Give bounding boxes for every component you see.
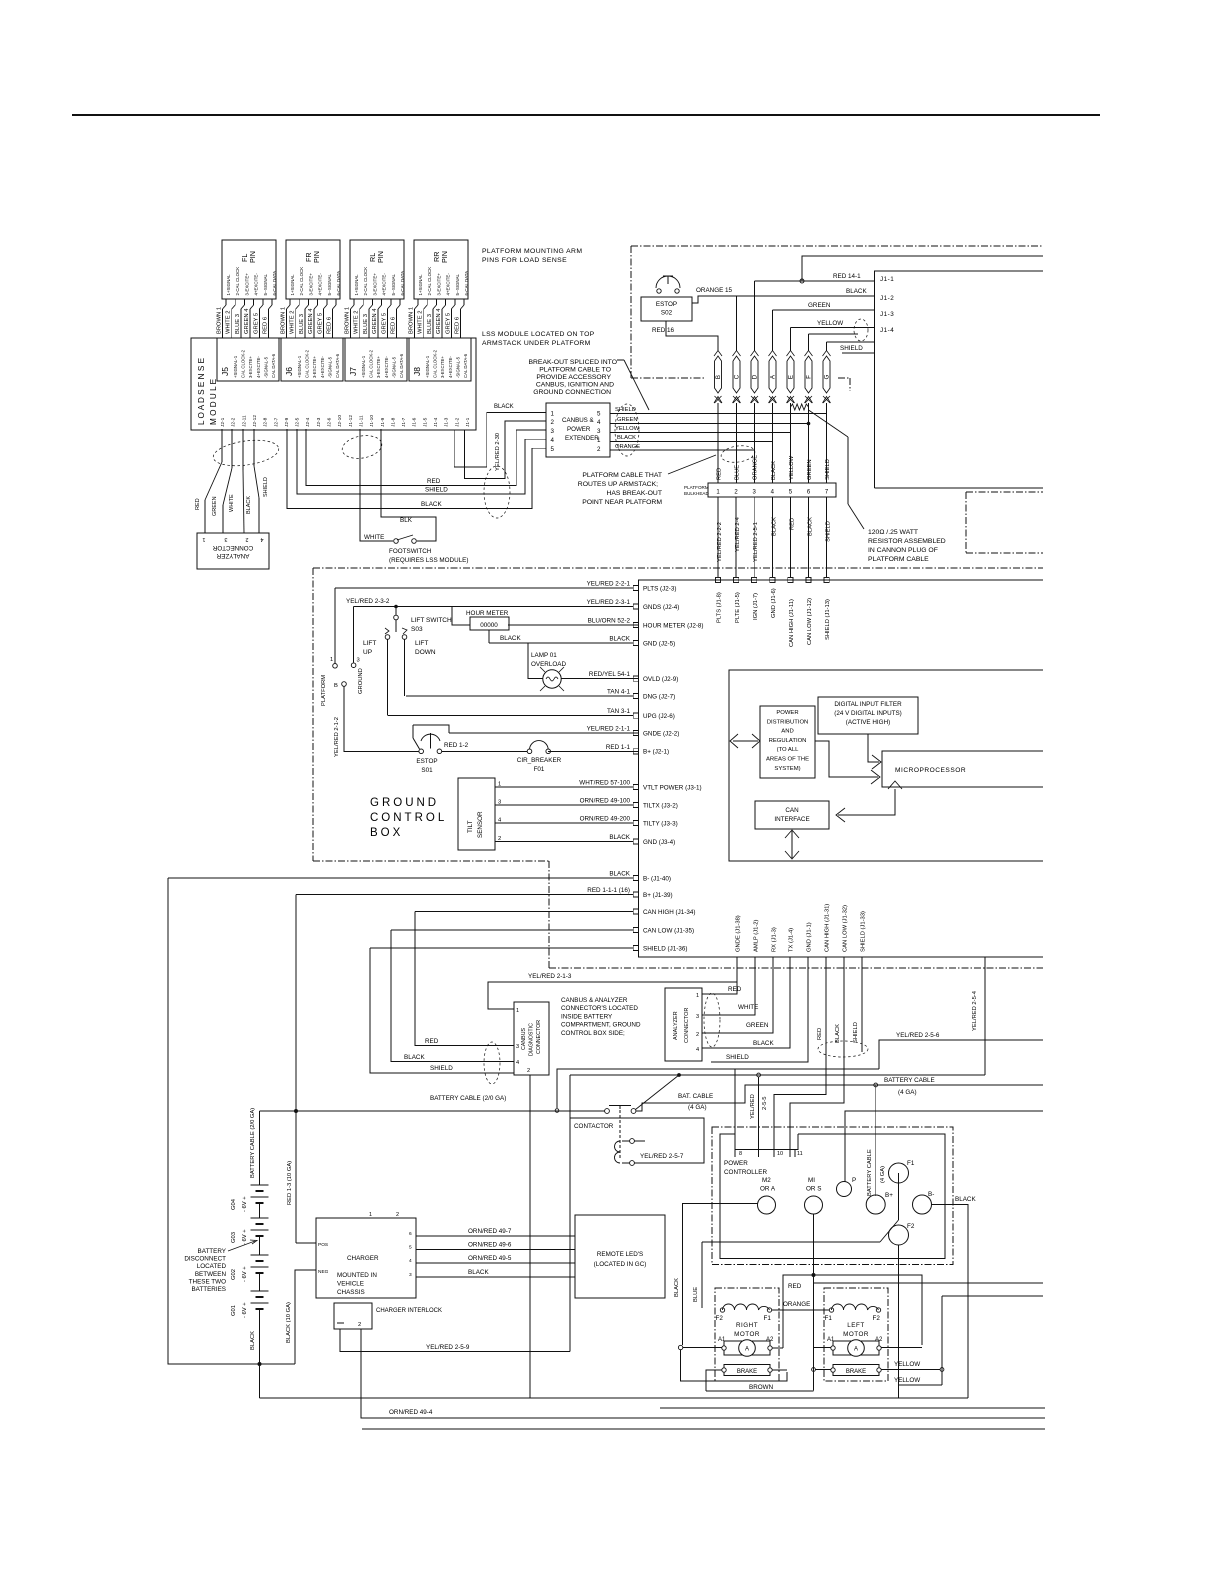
svg-text:6-CAL DATA: 6-CAL DATA (336, 271, 341, 296)
svg-text:GREEN 4: GREEN 4 (244, 308, 250, 334)
extender dashed ellipse (615, 404, 639, 456)
svg-text:SHIELD: SHIELD (263, 477, 269, 497)
svg-text:CANBUS &: CANBUS & (562, 417, 595, 424)
circuit breaker F01 (527, 749, 532, 754)
svg-text:INSIDE BATTERY: INSIDE BATTERY (561, 1013, 613, 1020)
svg-text:RED: RED (788, 1283, 802, 1290)
svg-text:WHITE 2: WHITE 2 (418, 310, 424, 334)
svg-text:ORN/RED 49-7: ORN/RED 49-7 (468, 1228, 512, 1235)
svg-text:CAL DATA-6: CAL DATA-6 (399, 353, 404, 378)
svg-text:POWER: POWER (776, 710, 798, 716)
svg-text:PLATFORM MOUNTING ARM: PLATFORM MOUNTING ARM (482, 248, 582, 255)
svg-text:3: 3 (696, 1014, 699, 1020)
svg-text:YELLOW: YELLOW (894, 1361, 920, 1368)
svg-text:SHIELD: SHIELD (853, 1022, 859, 1043)
svg-text:POWER: POWER (724, 1160, 748, 1167)
wire SHIELD riser (370, 948, 514, 1073)
svg-text:2-CAL CLOCK: 2-CAL CLOCK (427, 267, 432, 296)
svg-text:YEL/RED 2-30: YEL/RED 2-30 (495, 433, 501, 471)
Right motor field coil (723, 1304, 770, 1310)
svg-text:(TO ALL: (TO ALL (777, 747, 800, 753)
wire (371, 299, 373, 305)
wire M1 down (813, 1214, 815, 1273)
svg-text:REMOTE LED'S: REMOTE LED'S (597, 1251, 643, 1258)
svg-text:- 6V +: - 6V + (242, 1302, 248, 1318)
svg-text:J2-1: J2-1 (220, 417, 226, 427)
svg-text:BLACK: BLACK (955, 1196, 976, 1203)
noise shield ellipse (854, 319, 868, 341)
wire RED 1-1 to B+ (J2-1) (548, 750, 639, 752)
svg-text:CAL DATA-6: CAL DATA-6 (335, 353, 340, 378)
wire A2 left to red (881, 1347, 922, 1349)
svg-text:- 6V +: - 6V + (242, 1266, 248, 1282)
svg-text:J1-2: J1-2 (454, 417, 460, 427)
breakout bullet B (715, 356, 722, 393)
wire (362, 299, 364, 305)
svg-text:B: B (334, 683, 338, 689)
svg-text:4: 4 (696, 1047, 699, 1053)
wire BLK from footswitch (381, 429, 436, 541)
svg-text:RED 16: RED 16 (652, 327, 675, 334)
svg-text:GREY 5: GREY 5 (445, 313, 451, 334)
svg-text:SHIELD: SHIELD (825, 459, 831, 480)
svg-text:00000: 00000 (480, 622, 498, 629)
pin 8 (734, 1069, 736, 1157)
svg-text:3-EXCITE+: 3-EXCITE+ (312, 356, 317, 378)
svg-text:TILTX (J3-2): TILTX (J3-2) (643, 802, 678, 809)
svg-text:YEL/RED: YEL/RED (750, 1094, 756, 1119)
svg-text:3: 3 (409, 1272, 412, 1278)
resistor 120ohm (791, 404, 809, 410)
estop S01 (413, 725, 449, 733)
svg-text:-SIGNAL-5: -SIGNAL-5 (455, 356, 460, 378)
svg-text:F: F (806, 375, 813, 379)
svg-text:OVLD (J2-9): OVLD (J2-9) (643, 676, 678, 683)
svg-text:BROWN 1: BROWN 1 (217, 307, 223, 334)
svg-text:PLTS (J1-8): PLTS (J1-8) (717, 592, 723, 623)
wire to page edge (802, 256, 1043, 281)
svg-text:CHASSIS: CHASSIS (337, 1289, 365, 1296)
svg-text:ORN/RED 49-5: ORN/RED 49-5 (468, 1255, 512, 1262)
svg-text:BLACK: BLACK (609, 636, 630, 643)
svg-text:J1-4: J1-4 (433, 417, 439, 427)
svg-text:YEL/RED 2-1-1: YEL/RED 2-1-1 (587, 726, 631, 733)
platform bulkhead connector (708, 483, 836, 497)
svg-text:BREAK-OUT SPLICED INTO: BREAK-OUT SPLICED INTO (528, 359, 617, 366)
svg-text:BLUE 3: BLUE 3 (363, 314, 369, 334)
svg-text:CAL CLOCK-2: CAL CLOCK-2 (241, 349, 246, 378)
svg-text:CAN LOW (J1-12): CAN LOW (J1-12) (807, 598, 813, 645)
svg-text:AREAS OF THE: AREAS OF THE (766, 757, 809, 763)
wire (234, 299, 236, 305)
svg-text:+SIGNAL-1: +SIGNAL-1 (233, 355, 238, 378)
wire LSM to analyzer pin2 (242, 429, 244, 470)
wire (435, 299, 437, 305)
svg-text:AND: AND (781, 729, 793, 735)
wire bulkhead down (717, 497, 719, 580)
GCB J-connector bar (639, 580, 1044, 957)
svg-text:CAN HIGH (J1-31): CAN HIGH (J1-31) (825, 904, 831, 952)
svg-text:POWER: POWER (567, 426, 591, 433)
wire battery link (259, 1203, 261, 1218)
platform pin box RR PIN (414, 240, 468, 299)
svg-text:WHITE: WHITE (364, 534, 384, 541)
svg-text:+SIGNAL-1: +SIGNAL-1 (425, 355, 430, 378)
svg-text:J1-1: J1-1 (465, 417, 471, 427)
svg-text:5: 5 (409, 1245, 412, 1251)
analyzer connector box (665, 988, 702, 1061)
svg-text:BATTERY CABLE: BATTERY CABLE (884, 1077, 935, 1084)
Left motor dash-dot box (824, 1288, 888, 1381)
svg-text:- 6V +: - 6V + (242, 1196, 248, 1212)
svg-text:WHITE: WHITE (229, 494, 235, 512)
svg-text:4+EXCITE-: 4+EXCITE- (256, 356, 261, 378)
canbus cable ellipse (484, 1042, 500, 1084)
wire GND net A (557, 1069, 879, 1108)
svg-text:J1-8: J1-8 (390, 417, 396, 427)
svg-text:B+ (J1-39): B+ (J1-39) (643, 892, 673, 899)
svg-text:(4 GA): (4 GA) (898, 1089, 917, 1096)
svg-text:2: 2 (498, 836, 501, 842)
svg-text:YEL/RED 2-5-7: YEL/RED 2-5-7 (640, 1153, 684, 1160)
wire (463, 299, 465, 305)
svg-text:1: 1 (597, 437, 601, 444)
wire battery riser (259, 1111, 261, 1185)
svg-text:4+EXCITE-: 4+EXCITE- (320, 356, 325, 378)
svg-text:SHIELD: SHIELD (425, 487, 448, 494)
svg-text:J1-7: J1-7 (401, 417, 407, 427)
svg-text:BLACK: BLACK (674, 1278, 680, 1297)
svg-text:UP: UP (363, 649, 372, 656)
svg-text:BATTERIES: BATTERIES (191, 1286, 226, 1293)
svg-text:LSS MODULE LOCATED ON TOP: LSS MODULE LOCATED ON TOP (482, 331, 595, 338)
contactor blade (636, 1075, 680, 1110)
Right motor armature (724, 1341, 770, 1355)
platform cable callout (668, 455, 716, 474)
svg-text:ORANGE: ORANGE (753, 455, 759, 480)
svg-text:BLACK: BLACK (835, 1024, 841, 1043)
svg-text:CONNECTOR: CONNECTOR (212, 544, 253, 551)
svg-text:GNDS (J2-4): GNDS (J2-4) (643, 604, 679, 611)
resistor callout (809, 410, 849, 437)
breakout bullet E (787, 356, 794, 393)
wire (253, 299, 255, 305)
svg-text:BRAKE: BRAKE (846, 1369, 866, 1375)
wire A1 right black (678, 1345, 682, 1349)
svg-text:OR A: OR A (760, 1186, 776, 1193)
svg-text:F2: F2 (873, 1315, 881, 1322)
svg-text:SHIELD: SHIELD (430, 1065, 453, 1072)
svg-text:POS: POS (318, 1242, 328, 1248)
J1 connector box (874, 271, 1043, 488)
svg-text:YELLOW: YELLOW (615, 426, 640, 432)
svg-text:TAN 3-1: TAN 3-1 (607, 708, 630, 715)
wire bulkhead down (753, 497, 755, 580)
svg-text:MI: MI (808, 1177, 815, 1184)
wire PLTS stub to terminal 1 (334, 588, 336, 663)
svg-text:J1-4: J1-4 (880, 327, 894, 334)
wire CAN LOW to CAN LOW (J1-35) (391, 929, 639, 931)
connector J7 box (345, 338, 407, 381)
svg-text:WHT/RED 57-100: WHT/RED 57-100 (579, 780, 630, 787)
wire SHIELD J1-33 down (861, 957, 863, 1052)
svg-text:4: 4 (516, 1060, 519, 1066)
svg-text:6-CAL DATA: 6-CAL DATA (464, 271, 469, 296)
svg-text:S01: S01 (421, 767, 433, 774)
svg-text:(REQUIRES LSS MODULE): (REQUIRES LSS MODULE) (389, 557, 468, 564)
svg-text:F1: F1 (907, 1160, 915, 1167)
svg-text:BLACK: BLACK (617, 435, 636, 441)
svg-text:TAN 4-1: TAN 4-1 (607, 689, 630, 696)
svg-text:YEL/RED 2-2-1: YEL/RED 2-2-1 (587, 581, 631, 588)
svg-text:3-EXCITE+: 3-EXCITE+ (308, 273, 313, 296)
svg-text:CONTROL BOX SIDE;: CONTROL BOX SIDE; (561, 1030, 625, 1037)
svg-text:BOX: BOX (370, 827, 403, 839)
svg-text:J2-11: J2-11 (241, 415, 247, 427)
arrow micro to can interface (838, 789, 895, 815)
svg-text:3-EXCITE+: 3-EXCITE+ (440, 356, 445, 378)
arrow filter to micro (868, 734, 879, 762)
svg-text:G: G (824, 374, 831, 379)
svg-text:GND (J3-4): GND (J3-4) (643, 839, 675, 846)
svg-text:SHIELD: SHIELD (840, 345, 863, 352)
wire left edge B- black (168, 878, 295, 1364)
connector J6 box (281, 338, 343, 381)
contactor (605, 1109, 610, 1114)
wire (225, 299, 227, 305)
Left motor armature (833, 1341, 879, 1355)
can wires ellipse (818, 1041, 868, 1057)
wire lamp leads (528, 643, 543, 679)
canbus & power extender box (546, 403, 610, 457)
svg-text:RED 1-2: RED 1-2 (444, 742, 469, 749)
svg-text:BAT. CABLE: BAT. CABLE (678, 1093, 713, 1100)
battery disconnect arrow (228, 1241, 255, 1251)
svg-text:RX (J1-3): RX (J1-3) (772, 927, 778, 952)
wire C riser (736, 296, 738, 351)
wire analyzer pin2 GREEN (702, 957, 773, 1033)
Right motor brake (724, 1365, 770, 1376)
svg-text:MOTOR: MOTOR (734, 1331, 760, 1338)
wire bullet to bulkhead (754, 403, 756, 483)
wire YEL/RED 2-3-1 to GNDS (J2-4) (354, 606, 639, 608)
svg-text:PLATFORM: PLATFORM (684, 485, 709, 490)
svg-text:G02: G02 (231, 1269, 237, 1280)
svg-text:BLACK: BLACK (404, 1054, 425, 1061)
svg-text:DNG (J2-7): DNG (J2-7) (643, 693, 675, 700)
svg-text:BULKHEAD: BULKHEAD (684, 491, 709, 496)
svg-text:6: 6 (409, 1231, 412, 1237)
svg-text:(ACTIVE HIGH): (ACTIVE HIGH) (846, 719, 890, 726)
wire BLACK to GND (J3-4) (495, 841, 639, 843)
wire bullet to bulkhead (717, 403, 719, 483)
svg-text:4+EXCITE-: 4+EXCITE- (448, 356, 453, 378)
options boundary dash-dot right (966, 491, 1043, 493)
svg-text:FOOTSWITCH: FOOTSWITCH (389, 548, 432, 555)
svg-text:J2-9: J2-9 (284, 417, 290, 427)
svg-text:BLACK: BLACK (421, 501, 442, 508)
wire LSM to analyzer pin4 (253, 429, 255, 466)
svg-text:1+SIGNAL: 1+SIGNAL (290, 274, 295, 296)
svg-text:3-EXCITE+: 3-EXCITE+ (436, 273, 441, 296)
svg-text:ESTOP: ESTOP (416, 758, 437, 765)
svg-text:GREEN 4: GREEN 4 (308, 308, 314, 334)
svg-text:4: 4 (551, 437, 555, 444)
svg-text:(24 V DIGITAL INPUTS): (24 V DIGITAL INPUTS) (834, 710, 902, 717)
wire GNDE row from estop bracket (449, 732, 639, 734)
svg-text:CAL DATA-6: CAL DATA-6 (271, 353, 276, 378)
svg-text:RESISTOR ASSEMBLED: RESISTOR ASSEMBLED (868, 538, 946, 545)
svg-text:CANBUS: CANBUS (521, 1027, 527, 1050)
svg-text:PLTE (J1-5): PLTE (J1-5) (735, 592, 741, 623)
wire power dist to micro (815, 741, 878, 777)
svg-text:PIN: PIN (312, 251, 321, 263)
svg-text:SHIELD: SHIELD (615, 407, 636, 413)
wire BLACK to extender pin5 (287, 429, 546, 509)
svg-text:CHARGER: CHARGER (347, 1255, 379, 1262)
wire TAN 4-1 to DNG (J2-7) (406, 695, 639, 697)
svg-text:G04: G04 (231, 1198, 237, 1210)
svg-text:A1: A1 (827, 1337, 835, 1343)
wire breaker to B+ J2-1 (551, 750, 639, 752)
svg-text:E: E (788, 375, 795, 379)
svg-text:ORN/RED 49-6: ORN/RED 49-6 (468, 1242, 512, 1249)
platform boundary dash-dot (631, 245, 1042, 247)
wire CAN HIGH J1-31 down (774, 957, 826, 1157)
svg-text:WHITE 2: WHITE 2 (290, 310, 296, 334)
svg-text:2: 2 (396, 1212, 399, 1218)
svg-text:CONNECTOR'S LOCATED: CONNECTOR'S LOCATED (561, 1005, 638, 1012)
wire LSM to analyzer pin1 (221, 429, 223, 462)
svg-text:WHITE 2: WHITE 2 (226, 310, 232, 334)
svg-text:B: B (715, 375, 722, 379)
svg-text:CIR_BREAKER: CIR_BREAKER (517, 757, 562, 764)
svg-text:S03: S03 (411, 626, 423, 633)
svg-text:PIN: PIN (248, 251, 257, 263)
svg-text:WHITE: WHITE (738, 1004, 758, 1011)
svg-text:THESE TWO: THESE TWO (189, 1278, 226, 1285)
lift down contact (402, 628, 407, 634)
wire P net (845, 1111, 1043, 1182)
svg-text:SYSTEM): SYSTEM) (774, 766, 800, 772)
svg-text:PLATFORM CABLE TO: PLATFORM CABLE TO (539, 367, 611, 374)
svg-text:BLACK: BLACK (846, 288, 867, 295)
svg-text:YEL/RED 2-5-6: YEL/RED 2-5-6 (896, 1032, 940, 1039)
wire M2 BLACK (683, 1204, 758, 1346)
svg-text:A: A (745, 1347, 749, 1353)
wire WHITE to footswitch (360, 429, 393, 541)
svg-text:CANBUS, IGNITION AND: CANBUS, IGNITION AND (536, 382, 614, 389)
svg-text:ROUTES UP ARMSTACK;: ROUTES UP ARMSTACK; (578, 481, 658, 488)
svg-text:VTLT POWER (J3-1): VTLT POWER (J3-1) (643, 784, 702, 791)
svg-text:1: 1 (516, 1008, 519, 1014)
wire GREEN J1-3 (772, 310, 774, 351)
wire CAN LOW J1-32 down (790, 957, 844, 1157)
breakout bullet F (805, 356, 812, 393)
svg-text:11: 11 (797, 1151, 803, 1157)
svg-text:RED 14-1: RED 14-1 (833, 273, 861, 280)
svg-text:6-CAL DATA: 6-CAL DATA (400, 271, 405, 296)
Right motor dash-dot box (715, 1288, 779, 1381)
svg-text:DISCONNECT: DISCONNECT (184, 1256, 226, 1263)
wire GND J2-5 row (488, 630, 490, 643)
svg-text:J2-6: J2-6 (327, 417, 333, 427)
digital input filter box (818, 697, 918, 734)
lift switch S03 common (394, 605, 398, 609)
wire A2 right to red (772, 1347, 783, 1349)
svg-text:1+SIGNAL: 1+SIGNAL (354, 274, 359, 296)
svg-text:4+EXCITE-: 4+EXCITE- (384, 356, 389, 378)
svg-text:J1-11: J1-11 (358, 415, 364, 427)
wire YEL/RED 2-5-5 (758, 1077, 760, 1157)
svg-text:BLACK: BLACK (468, 1269, 489, 1276)
svg-text:BATTERY CABLE (2/0 GA): BATTERY CABLE (2/0 GA) (250, 1108, 256, 1178)
svg-text:ARMSTACK UNDER PLATFORM: ARMSTACK UNDER PLATFORM (482, 340, 591, 347)
svg-text:RIGHT: RIGHT (736, 1322, 758, 1329)
wire analyzer pin3 WHITE (702, 957, 755, 1015)
svg-text:RED 6: RED 6 (391, 317, 397, 334)
wire CAN LOW riser (391, 930, 514, 1062)
svg-text:PLTS (J2-3): PLTS (J2-3) (643, 585, 676, 592)
svg-text:BLACK: BLACK (609, 871, 630, 878)
svg-text:GREEN: GREEN (746, 1022, 769, 1029)
svg-text:CAN HIGH (J1-34): CAN HIGH (J1-34) (643, 909, 695, 916)
svg-text:BROWN 1: BROWN 1 (409, 307, 415, 334)
svg-text:B+ (J2-1): B+ (J2-1) (643, 749, 669, 756)
svg-text:BROWN 1: BROWN 1 (281, 307, 287, 334)
wire BLACK to B- (J1-40) (168, 877, 639, 879)
svg-text:J1-3: J1-3 (444, 417, 450, 427)
svg-text:BLACK: BLACK (771, 461, 777, 480)
breakout bullet G (823, 356, 830, 393)
svg-text:M2: M2 (762, 1177, 771, 1184)
platform pin box RL PIN (350, 240, 404, 299)
svg-text:5--SIGNAL: 5--SIGNAL (391, 273, 396, 295)
svg-text:2: 2 (696, 1032, 699, 1038)
wire BLACK (416, 1276, 575, 1278)
wire brake-R right (772, 1369, 787, 1371)
wire yellow riser (941, 1296, 943, 1385)
wire YEL/RED 2-3-2 leg to terminal 3 (353, 607, 355, 663)
wire (454, 299, 456, 305)
wire battery negative long (259, 1364, 261, 1398)
svg-text:SHIELD (J1-13): SHIELD (J1-13) (825, 599, 831, 640)
svg-text:SHIELD (J1-36): SHIELD (J1-36) (643, 945, 687, 952)
svg-text:10: 10 (777, 1151, 783, 1157)
svg-text:YELLOW: YELLOW (894, 1377, 920, 1384)
svg-text:GNDE (J2-2): GNDE (J2-2) (643, 730, 679, 737)
svg-text:S02: S02 (661, 310, 673, 317)
svg-text:GREEN: GREEN (617, 417, 638, 423)
svg-text:- 6V +: - 6V + (242, 1229, 248, 1245)
svg-text:J2-5: J2-5 (295, 417, 301, 427)
wire ORANGE right F1 to left F1 (772, 1309, 830, 1311)
wire BLACK to GND (J2-5) (489, 642, 639, 644)
svg-text:GND (J1-6): GND (J1-6) (771, 588, 777, 618)
wire CAN HIGH riser (415, 912, 514, 1046)
svg-text:RED/YEL 54-1: RED/YEL 54-1 (589, 671, 631, 678)
svg-text:BLUE: BLUE (693, 1287, 699, 1302)
wire CAN HIGH to CAN HIGH (J1-34) (415, 911, 639, 913)
svg-text:PLATFORM CABLE: PLATFORM CABLE (868, 556, 929, 563)
svg-text:2-CAL CLOCK: 2-CAL CLOCK (299, 267, 304, 296)
svg-text:-SIGNAL-5: -SIGNAL-5 (263, 356, 268, 378)
wire bulkhead down (808, 497, 810, 580)
svg-text:GREY 5: GREY 5 (317, 313, 323, 334)
svg-text:BLUE 3: BLUE 3 (235, 314, 241, 334)
svg-text:DIGITAL INPUT FILTER: DIGITAL INPUT FILTER (834, 701, 902, 708)
svg-text:BLACK: BLACK (753, 1040, 774, 1047)
